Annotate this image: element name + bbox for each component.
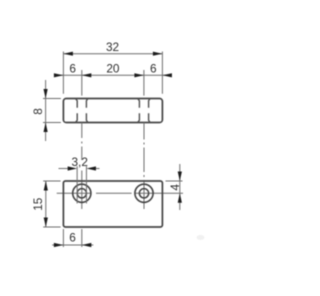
dimension 8 (31, 80, 61, 141)
faint smudge artifact (197, 235, 205, 240)
dimension 4 (166, 164, 183, 210)
svg-text:15: 15 (31, 197, 45, 211)
center line left hole vertical (81, 123, 83, 210)
top view outline (63, 99, 162, 123)
svg-text:4: 4 (168, 184, 182, 191)
left hole counterbore circle (73, 184, 91, 202)
hidden hole lines left hole (top view) (76, 99, 88, 123)
hidden hole lines right hole (top view) (138, 99, 150, 123)
front view outline (63, 181, 162, 227)
dimension 15 (31, 181, 61, 227)
svg-text:20: 20 (106, 61, 120, 75)
svg-text:32: 32 (106, 40, 119, 54)
svg-text:6: 6 (69, 231, 76, 245)
svg-text:6: 6 (150, 61, 157, 75)
svg-text:3,2: 3,2 (71, 155, 87, 169)
svg-text:6: 6 (69, 61, 76, 75)
horizontal center line through holes (front view) (57, 192, 183, 194)
right hole counterbore circle (135, 184, 153, 202)
svg-text:8: 8 (31, 108, 45, 115)
right hole bore circle (139, 189, 148, 198)
left hole bore circle (77, 189, 86, 198)
dimension 32 (63, 40, 162, 93)
dimension 3,2 (59, 155, 100, 204)
dimension 6 bottom (52, 229, 93, 247)
dimension row 6 / 20 / 6 (54, 61, 172, 95)
center line right hole vertical (143, 123, 145, 210)
